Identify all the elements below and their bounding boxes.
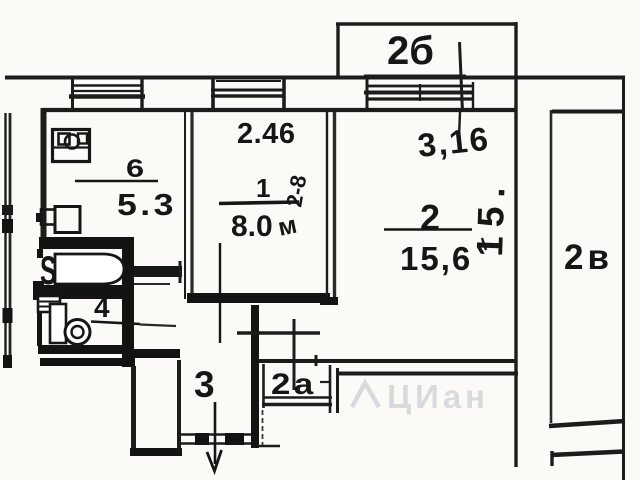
svg-text:6: 6 xyxy=(126,155,144,183)
svg-text:15,6: 15,6 xyxy=(400,240,472,277)
bathtub xyxy=(55,254,124,284)
svg-text:8.0: 8.0 xyxy=(231,210,273,243)
window W1 xyxy=(69,78,145,110)
closet bottom double line xyxy=(263,396,332,399)
wire: inner top wall xyxy=(42,108,517,112)
svg-text:3: 3 xyxy=(194,364,215,405)
bathroom outer bottom wall xyxy=(40,358,135,366)
closet small dash vertical xyxy=(262,410,264,446)
hallway inner vertical xyxy=(177,360,181,449)
room1 bottom wall xyxy=(187,293,330,303)
closet inner vertical xyxy=(293,319,296,390)
wire: right box top wall xyxy=(552,110,624,114)
wire: kitchen left wall xyxy=(41,108,47,238)
wire: balcony 2b top xyxy=(336,22,517,25)
hallway bottom double wall xyxy=(178,433,253,436)
room1 dimension line xyxy=(219,243,221,343)
closet right wall double xyxy=(329,365,332,413)
watermark logo xyxy=(352,383,379,407)
wire: balcony 2b left xyxy=(336,24,339,78)
svg-text:2: 2 xyxy=(420,197,440,238)
bathroom top wall xyxy=(39,237,134,249)
hallway lintel xyxy=(134,349,180,358)
entrance arrow xyxy=(214,402,217,464)
svg-text:4: 4 xyxy=(94,292,110,323)
hallway step xyxy=(130,448,182,456)
right box inner line 2 xyxy=(551,452,624,456)
wire: top exterior wall xyxy=(5,76,625,80)
washbasin xyxy=(38,296,60,312)
stove icon xyxy=(52,130,90,162)
window W2 xyxy=(211,77,285,111)
svg-text:2в: 2в xyxy=(564,238,613,277)
wire: kitchen door lintel xyxy=(134,266,182,277)
window W3 xyxy=(364,78,474,112)
svg-text:S: S xyxy=(40,249,57,293)
closet left thick wall xyxy=(251,305,259,448)
hallway west wall xyxy=(131,366,136,450)
bathroom divider wall xyxy=(39,285,134,299)
wire: long vertical wall x=516 (balcony right + room2 east) xyxy=(514,22,517,467)
sink icon xyxy=(36,207,80,233)
wire: right exterior wall xyxy=(622,78,625,480)
closet horizontal xyxy=(237,331,320,334)
svg-text:5.3: 5.3 xyxy=(117,188,177,222)
wire: balcony dimension tick through window xyxy=(460,42,463,112)
svg-text:ЦИан: ЦИан xyxy=(387,378,489,415)
room2 south walls xyxy=(255,359,516,363)
svg-text:2.46: 2.46 xyxy=(237,118,295,150)
bathroom inner bottom wall xyxy=(38,345,134,354)
toilet xyxy=(50,304,90,345)
bathroom right wall xyxy=(122,237,134,367)
right box left wall xyxy=(550,110,553,423)
bathroom left wall xyxy=(37,249,43,258)
svg-text:1: 1 xyxy=(256,173,270,203)
svg-text:2б: 2б xyxy=(387,29,434,73)
svg-text:2а: 2а xyxy=(271,367,317,400)
wire: left exterior wall xyxy=(4,113,6,368)
wire: kitchen/room1 divider double line xyxy=(184,112,186,299)
right box inner line 1 xyxy=(549,421,625,426)
wire: top wall dark segment over window W3 xyxy=(364,75,466,80)
svg-text:3,16: 3,16 xyxy=(416,120,492,164)
svg-text:15.: 15. xyxy=(469,177,513,257)
